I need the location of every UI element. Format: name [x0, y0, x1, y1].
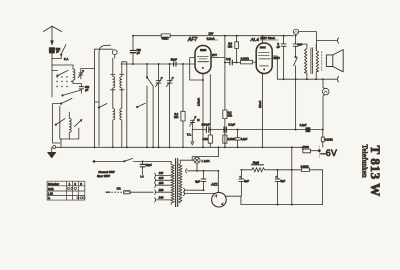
svg-text:0,1MΩ: 0,1MΩ — [241, 56, 249, 60]
AZ1 anode lead — [217, 171, 219, 193]
coil L1 — [73, 69, 75, 83]
pickup jack circle — [322, 79, 329, 129]
grid line y64 — [121, 63, 195, 65]
svg-text:T 813 W: T 813 W — [368, 146, 383, 197]
underline 12V — [207, 39, 218, 41]
svg-text:L.W.: L.W. — [48, 192, 53, 196]
switch S2b — [55, 119, 65, 126]
svg-text:0,1μF: 0,1μF — [241, 137, 248, 141]
svg-text:500Ω: 500Ω — [303, 145, 309, 149]
switch antenna — [52, 45, 66, 59]
output transformer primary — [305, 44, 307, 79]
svg-text:Telefunken: Telefunken — [360, 145, 368, 179]
svg-text:nF: nF — [277, 45, 280, 49]
svg-text:2,5mA: 2,5mA — [197, 98, 201, 106]
svg-text:50pF: 50pF — [171, 58, 177, 62]
svg-text:12V: 12V — [208, 31, 213, 35]
coil L2 — [69, 112, 71, 139]
resistor 0.6M — [232, 36, 238, 63]
capacitor 500pF antenna — [49, 48, 54, 60]
transformer primary winding — [171, 161, 174, 204]
svg-text:0,1mA: 0,1mA — [207, 36, 215, 40]
AF7 grid return bracket — [190, 58, 203, 80]
wave switch x147 — [146, 64, 153, 147]
connector circle on bus — [53, 146, 56, 149]
svg-text:pF: pF — [137, 51, 140, 55]
field coil resistor — [251, 165, 264, 172]
wire x183 with resistor 0.2M — [181, 64, 185, 147]
antenna — [44, 26, 62, 45]
chassis bus — [56, 146, 302, 148]
coil block 1 frame — [52, 59, 73, 97]
svg-text:M.W.: M.W. — [48, 187, 54, 191]
svg-text:8μF: 8μF — [195, 179, 200, 183]
AL4 cathode lead — [261, 74, 263, 148]
svg-text:AL4: AL4 — [250, 37, 260, 42]
capacitor 0.04uF series — [206, 127, 208, 132]
resistor 0.2M bleeder — [302, 168, 310, 172]
resistor 500 — [302, 146, 320, 158]
svg-text:MΩ: MΩ — [228, 113, 232, 117]
svg-text:200V 40mA: 200V 40mA — [260, 36, 275, 40]
speaker — [326, 50, 343, 72]
svg-text:220: 220 — [158, 188, 164, 192]
core arrow L2 — [75, 120, 82, 127]
variable capacitor gang 2 — [166, 64, 173, 147]
IF coil column B — [120, 62, 124, 148]
svg-text:K.: K. — [48, 196, 51, 200]
resistor 4MOhm — [161, 34, 170, 37]
resistor 1M — [208, 130, 212, 148]
svg-text:8μF: 8μF — [280, 179, 285, 183]
output transformer secondary — [316, 45, 318, 80]
antenna coupling loop — [95, 49, 118, 58]
svg-text:27V: 27V — [212, 53, 217, 57]
svg-text:0,1μF: 0,1μF — [300, 123, 307, 127]
AL4 screen wire — [272, 56, 277, 79]
rectifier AZ1 — [212, 192, 227, 207]
speaker feed line — [277, 78, 336, 80]
AF7 cathode lead — [202, 74, 204, 148]
svg-text:pF: pF — [56, 50, 59, 54]
output transformer feed — [296, 43, 307, 45]
capacitor 0.1uF shunt — [235, 130, 240, 148]
volume pot line y129.6 — [192, 129, 322, 131]
svg-text:150: 150 — [159, 181, 164, 185]
svg-text:L 0,6A: L 0,6A — [202, 159, 210, 163]
heater tap arrows — [184, 188, 215, 196]
AL4 anode top lead — [262, 36, 264, 43]
grid cap arrow line — [299, 32, 339, 51]
transformer HV secondary — [179, 160, 182, 203]
capacitor 50pF series — [174, 62, 176, 66]
svg-text:0,1MΩ: 0,1MΩ — [325, 137, 333, 141]
heater line — [186, 169, 219, 173]
wire x224.9 — [224, 36, 226, 148]
svg-text:pF: pF — [85, 88, 88, 92]
tube AL4 — [256, 43, 272, 74]
wire x126.8 — [122, 62, 127, 148]
resistor 0.1M — [223, 130, 227, 148]
tube AF7 — [195, 46, 211, 74]
switch S1a — [52, 70, 68, 76]
switch table — [47, 181, 85, 200]
resistor 0.2M anode — [223, 110, 227, 119]
coil block 2 frame — [53, 104, 79, 143]
svg-text:Schalter: Schalter — [48, 182, 59, 186]
variable capacitor gang 1 — [155, 64, 162, 147]
svg-text:0,1μF: 0,1μF — [228, 123, 235, 127]
switch stub mid — [137, 103, 146, 108]
capacitor 1nF output + switch — [293, 36, 298, 130]
filter line — [241, 169, 322, 171]
svg-text:AZ1: AZ1 — [210, 182, 218, 186]
svg-text:15mA: 15mA — [258, 101, 262, 108]
svg-text:T.A.: T.A. — [187, 133, 192, 137]
svg-text:AF7: AF7 — [187, 37, 197, 43]
svg-text:200V: 200V — [273, 56, 280, 60]
contact row — [56, 76, 72, 87]
B+ bottom line — [225, 196, 322, 204]
switch arm can left — [98, 104, 107, 109]
wire x291.8 — [291, 147, 293, 204]
capacitor 400pF — [73, 83, 84, 93]
capacitor 5nF — [281, 36, 286, 79]
bus to lamp link — [192, 147, 218, 160]
volume potentiometer — [190, 116, 196, 129]
svg-text:125: 125 — [159, 176, 164, 180]
svg-text:0,2MΩ: 0,2MΩ — [301, 164, 309, 168]
stub to can — [95, 101, 100, 103]
svg-text:Spar 38W: Spar 38W — [97, 174, 110, 178]
fuse mains — [106, 191, 153, 194]
switch S2a — [53, 98, 73, 104]
trimmer VC1 — [78, 69, 94, 79]
resistor 0.1M jack — [321, 130, 324, 148]
capacitor 0.1uF series — [224, 127, 226, 132]
svg-text:50μF: 50μF — [146, 163, 152, 167]
ground — [48, 147, 56, 158]
IF coil column A — [111, 58, 115, 147]
svg-text:MΩ: MΩ — [228, 45, 232, 49]
transformer core — [176, 159, 178, 207]
wire block2 to bus — [60, 139, 62, 147]
svg-text:0,04μF: 0,04μF — [202, 123, 211, 127]
capacitor 50uF mains — [140, 161, 145, 174]
capacitor 8uF second — [239, 170, 244, 196]
svg-text:4MΩ: 4MΩ — [162, 37, 169, 41]
svg-text:8μF: 8μF — [244, 179, 249, 183]
capacitor 100pF — [130, 36, 135, 64]
svg-text:110: 110 — [159, 171, 164, 175]
terminal circle node a — [293, 29, 298, 34]
mains switch line — [93, 158, 171, 162]
dashed coupling to speaker — [321, 52, 323, 71]
svg-text:6nF: 6nF — [298, 42, 303, 46]
switch S1b — [62, 90, 81, 96]
svg-text:MΩ: MΩ — [174, 115, 178, 119]
top supply bus — [133, 35, 294, 37]
TA terminal — [191, 130, 194, 145]
arrow tip bottom — [337, 77, 338, 82]
AF7 anode wire 27V — [211, 57, 225, 59]
output transformer core — [311, 48, 313, 74]
screen lead AF7 — [209, 75, 211, 130]
svg-text:F.S.: F.S. — [117, 186, 122, 190]
resistor 0.1M coupling — [240, 60, 256, 64]
capacitor 8uF first — [201, 171, 206, 190]
wire x322.6 — [322, 170, 324, 205]
svg-text:K.A: K.A — [64, 57, 68, 61]
dial lamp — [180, 157, 200, 171]
capacitor 8uF third — [275, 170, 280, 205]
svg-text:0,1MΩ: 0,1MΩ — [228, 137, 236, 141]
secondary top link — [315, 44, 317, 46]
capacitor block 0.1uF — [306, 128, 310, 132]
svg-text:–6V: –6V — [321, 148, 338, 158]
shield can outline — [99, 45, 111, 146]
svg-text:240: 240 — [158, 196, 164, 200]
transformer taps — [155, 173, 172, 202]
capacitor 1nF — [225, 60, 241, 65]
svg-text:Feld: Feld — [253, 161, 259, 165]
svg-text:1MΩ: 1MΩ — [202, 137, 208, 141]
svg-text:1nF: 1nF — [226, 57, 231, 61]
svg-text:L4: L4 — [140, 174, 144, 178]
wire left vertical x94.5 — [94, 49, 96, 147]
